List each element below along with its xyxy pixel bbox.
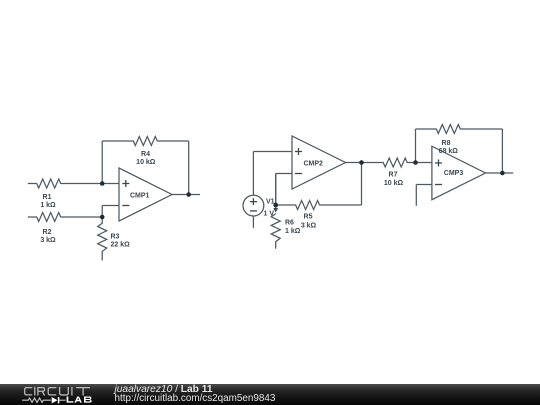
- svg-text:R5: R5: [304, 214, 313, 221]
- svg-text:1 kΩ: 1 kΩ: [40, 202, 56, 209]
- svg-text:22 kΩ: 22 kΩ: [111, 242, 131, 249]
- svg-text:CMP2: CMP2: [304, 161, 324, 168]
- svg-text:R4: R4: [141, 151, 150, 158]
- svg-text:R8: R8: [442, 140, 451, 147]
- svg-text:R1: R1: [43, 194, 52, 201]
- svg-text:R7: R7: [389, 172, 398, 179]
- svg-text:R6: R6: [285, 220, 294, 227]
- svg-text:3 kΩ: 3 kΩ: [301, 222, 317, 229]
- svg-text:68 kΩ: 68 kΩ: [439, 148, 459, 155]
- svg-text:1 V: 1 V: [264, 211, 275, 218]
- svg-text:R2: R2: [43, 229, 52, 236]
- svg-text:R3: R3: [111, 234, 120, 241]
- svg-text:3 kΩ: 3 kΩ: [40, 237, 56, 244]
- svg-text:V1: V1: [266, 199, 275, 206]
- svg-text:CMP3: CMP3: [444, 170, 464, 177]
- svg-text:CMP1: CMP1: [130, 193, 150, 200]
- svg-text:1 kΩ: 1 kΩ: [285, 228, 301, 235]
- svg-text:10 kΩ: 10 kΩ: [384, 180, 404, 187]
- svg-text:10 kΩ: 10 kΩ: [136, 159, 156, 166]
